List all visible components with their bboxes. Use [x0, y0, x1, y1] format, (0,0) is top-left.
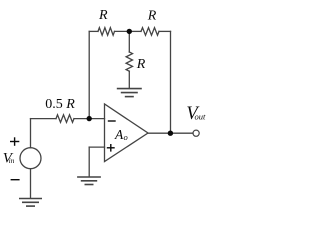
wire R2 to right corner [159, 30, 171, 32]
wire top-left segment [89, 30, 98, 32]
wire node to R2 [129, 30, 141, 32]
op-amp plus sign [107, 147, 115, 149]
svg-text:0.5 R: 0.5 R [45, 97, 75, 112]
svg-text:R: R [98, 8, 108, 23]
svg-text:Vout: Vout [186, 104, 206, 124]
wire source bottom vertical [30, 169, 32, 199]
op-amp U1 triangle [105, 104, 149, 162]
resistor R3 [126, 52, 132, 71]
ground at non-inverting input [77, 177, 101, 185]
wire output [148, 132, 193, 134]
wire non-inverting input [89, 146, 104, 148]
voltage source Vin circle [20, 148, 41, 169]
wire R3 to ground [128, 71, 130, 88]
svg-text:Vin: Vin [3, 151, 15, 167]
source minus sign [11, 179, 20, 181]
svg-text:R: R [147, 9, 157, 24]
wire R1 to node [115, 30, 130, 32]
node junction dot top [127, 29, 132, 34]
resistor 0.5R [56, 115, 74, 123]
wire plus input down vertical [88, 147, 90, 177]
op-amp minus sign [108, 120, 116, 122]
resistor R2 [141, 28, 159, 36]
wire right vertical [170, 31, 172, 133]
wire node down to R3 [128, 31, 130, 52]
output terminal circle [193, 130, 199, 136]
node junction dot inverting input [87, 116, 92, 121]
node junction dot output [168, 131, 173, 136]
svg-text:Ao: Ao [114, 127, 128, 142]
wire input left segment [31, 118, 57, 120]
source plus sign [10, 141, 19, 143]
wire 0.5R to inverting node [74, 118, 105, 120]
resistor R1 [98, 28, 115, 36]
svg-text:R: R [136, 57, 146, 72]
wire source top vertical [30, 119, 32, 148]
wire left vertical (feedback to inverting node) [88, 31, 90, 118]
ground below R3 [117, 89, 142, 97]
ground below Vin [19, 199, 42, 207]
